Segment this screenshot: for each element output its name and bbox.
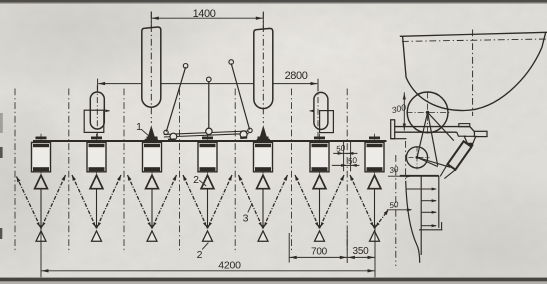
drive strut wheel-roller	[417, 112, 427, 156]
row centerline at x=180	[179, 89, 181, 254]
opener point unit 1	[36, 231, 46, 241]
sowing unit 7	[365, 134, 384, 229]
feed roller (side view)	[406, 147, 429, 170]
part label 3	[243, 203, 253, 224]
dimension 50 (side)	[387, 200, 413, 211]
marker rod right	[254, 12, 273, 124]
svg-text:4200: 4200	[218, 260, 241, 272]
soil coverage arrows unit 2	[72, 175, 121, 228]
strut roller-boot	[417, 157, 450, 167]
svg-text:50: 50	[389, 200, 400, 210]
part label 2 (lower)	[197, 243, 209, 261]
hopper fill level line	[402, 39, 547, 41]
svg-text:30: 30	[389, 165, 400, 175]
drive strut wheel-hitch	[428, 112, 454, 140]
dimension 4200	[41, 225, 375, 278]
sowing unit 2	[87, 134, 106, 229]
lift linkage left rod	[166, 64, 188, 132]
dimension 350	[347, 246, 375, 259]
svg-text:3: 3	[243, 213, 249, 225]
opener point unit 7	[370, 231, 380, 241]
opener point unit 5	[258, 231, 268, 241]
row centerline at x=292	[291, 89, 293, 254]
svg-text:50: 50	[335, 144, 346, 154]
soil coverage arrows unit 6	[295, 175, 344, 228]
seed boot (side view)	[440, 141, 471, 178]
sowing unit 5	[254, 134, 273, 229]
soil coverage arrows unit 3	[128, 175, 177, 228]
scan edge band top	[0, 0, 547, 4]
sowing unit 6	[310, 134, 329, 229]
hopper centerline	[472, 30, 474, 117]
strut wheel-boot	[428, 112, 438, 165]
soil coverage arrows unit 5	[239, 175, 288, 228]
row centerline at x=347	[346, 89, 348, 251]
opener point unit 3	[147, 231, 157, 241]
ground wheel	[407, 92, 450, 134]
svg-text:1400: 1400	[193, 8, 216, 20]
svg-text:2: 2	[193, 174, 199, 186]
soil coverage arrows unit 7	[350, 175, 389, 228]
scan edge band bottom	[0, 278, 547, 284]
lift linkage middle lever	[207, 77, 212, 129]
svg-text:350: 350	[352, 246, 369, 257]
row centerline at x=69	[68, 89, 70, 254]
opener point unit 4	[203, 231, 213, 241]
depth gauge steps	[400, 176, 443, 255]
hopper bowl (side view)	[403, 33, 546, 111]
dimension 700	[289, 231, 347, 263]
svg-text:2: 2	[197, 249, 203, 261]
attachment capsule right (unit 6)	[309, 86, 333, 142]
part label 2 (upper)	[193, 174, 206, 186]
dimension 50 upper (row offset)	[333, 142, 357, 172]
soil coverage arrows unit 1	[17, 175, 66, 228]
part label 1	[136, 121, 150, 137]
marker rod left	[142, 12, 161, 124]
frame beam (side view)	[395, 124, 474, 137]
frame front bracket	[391, 120, 407, 139]
sowing unit 3	[143, 134, 162, 229]
lift linkage bar	[164, 128, 252, 141]
side view datum centerline	[395, 155, 397, 266]
row centerline at x=124	[123, 89, 125, 254]
row centerline at x=15	[14, 89, 16, 254]
soil coverage arrows unit 4	[183, 175, 232, 228]
dimension 1400	[151, 8, 263, 30]
opener point unit 6	[315, 231, 325, 241]
dimension 30 (side)	[388, 165, 412, 178]
sowing unit 4	[198, 134, 217, 229]
marker mount cone left	[145, 125, 158, 141]
svg-text:50: 50	[347, 156, 358, 166]
dimension 2800	[98, 70, 318, 91]
svg-text:1: 1	[136, 121, 142, 133]
hitch tongue	[464, 131, 487, 146]
lift linkage right rod	[229, 60, 250, 130]
attachment capsule left (unit 2)	[84, 86, 110, 142]
dimension 50 lower (row offset)	[332, 156, 360, 167]
svg-text:700: 700	[311, 247, 328, 258]
scan edge smudges left	[0, 113, 3, 239]
furrow profile curve	[406, 181, 420, 263]
row centerline at x=235	[234, 89, 236, 254]
opener point unit 2	[92, 231, 102, 241]
toolbar beam (front view)	[33, 140, 387, 142]
marker mount cone right	[257, 125, 270, 141]
vertical chain below hopper	[405, 141, 407, 180]
hopper top rim (side view)	[400, 32, 547, 36]
dimension 300	[391, 92, 408, 130]
svg-text:2800: 2800	[285, 70, 308, 82]
sowing unit 1	[32, 134, 51, 229]
